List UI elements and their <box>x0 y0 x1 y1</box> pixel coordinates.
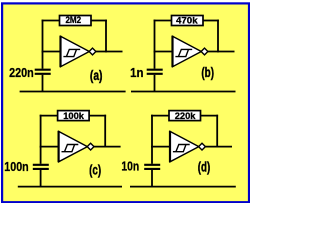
capacitor 100n (c) <box>4 147 48 174</box>
Schmitt trigger inverter (d) <box>169 131 206 162</box>
Schmitt trigger inverter (a) <box>59 36 96 67</box>
svg-text:100k: 100k <box>63 111 84 122</box>
resistor 2M2 (a) <box>60 15 92 26</box>
svg-text:100n: 100n <box>4 160 28 174</box>
svg-text:220n: 220n <box>9 66 34 80</box>
wire: resistor right lead to top-right corner (d) <box>201 115 219 117</box>
wire: top horizontal to resistor left lead (d) <box>151 115 169 117</box>
svg-text:(d): (d) <box>198 159 211 175</box>
ground rail 0V (a) <box>20 91 126 93</box>
wire: left feedback vertical, input node up to resistor lead (d) <box>151 115 153 148</box>
svg-text:(a): (a) <box>90 68 103 84</box>
svg-text:470k: 470k <box>176 15 198 26</box>
wire: output net from inverter bubble rightward (b) <box>208 51 235 53</box>
wire: top horizontal to resistor left lead (a) <box>42 20 60 22</box>
resistor 100k (c) <box>58 111 90 123</box>
wire: resistor right lead to top-right corner (a) <box>91 20 107 22</box>
svg-text:(b): (b) <box>201 65 214 81</box>
wire: top horizontal to resistor left lead (b) <box>154 20 172 22</box>
wire: left feedback vertical, input node up to resistor lead (b) <box>154 20 156 53</box>
svg-text:2M2: 2M2 <box>65 15 81 26</box>
wire: resistor right lead to top-right corner (c) <box>89 115 106 117</box>
Schmitt trigger inverter (c) <box>58 131 95 162</box>
resistor 470k (b) <box>172 15 204 26</box>
svg-text:(c): (c) <box>89 162 101 178</box>
ground rail 0V (b) <box>131 91 236 93</box>
yellow panel with blue frame <box>2 3 249 202</box>
resistor 220k (d) <box>169 111 201 123</box>
wire: output net from inverter bubble rightward (c) <box>94 146 121 148</box>
wire: top horizontal to resistor left lead (c) <box>40 115 58 117</box>
wire: input net from C/R node to inverter input (d) <box>151 146 170 148</box>
Schmitt trigger inverter (b) <box>171 36 208 67</box>
white page background <box>0 0 250 203</box>
ground rail 0V (c) <box>18 186 122 188</box>
wire: input net from C/R node to inverter input (c) <box>40 146 59 148</box>
wire: output net from inverter bubble rightward (a) <box>96 51 123 53</box>
capacitor 10n (d) <box>121 147 160 174</box>
capacitor 220n (a) <box>9 52 51 80</box>
wire: right feedback vertical down to output net (c) <box>104 115 106 148</box>
wire: capacitor bottom plate to ground rail (b) <box>154 75 156 92</box>
svg-text:1n: 1n <box>130 66 143 80</box>
wire: input net from C/R node to inverter input (a) <box>42 51 61 53</box>
wire: left feedback vertical, input node up to resistor lead (a) <box>42 20 44 53</box>
ground rail 0V (d) <box>130 186 236 188</box>
wire: left feedback vertical, input node up to resistor lead (c) <box>40 115 42 148</box>
capacitor 1n (b) <box>130 52 163 80</box>
wire: capacitor bottom plate to ground rail (a) <box>42 75 44 92</box>
svg-text:220k: 220k <box>175 111 196 122</box>
wire: right feedback vertical down to output net (a) <box>105 20 107 53</box>
wire: resistor right lead to top-right corner (b) <box>203 20 219 22</box>
wire: output net from inverter bubble rightward (d) <box>205 146 232 148</box>
wire: input net from C/R node to inverter input (b) <box>154 51 173 53</box>
wire: capacitor bottom plate to ground rail (d) <box>151 170 153 187</box>
wire: right feedback vertical down to output net (d) <box>216 115 218 148</box>
wire: right feedback vertical down to output net (b) <box>217 20 219 53</box>
svg-text:10n: 10n <box>121 159 139 173</box>
wire: capacitor bottom plate to ground rail (c) <box>40 170 42 187</box>
